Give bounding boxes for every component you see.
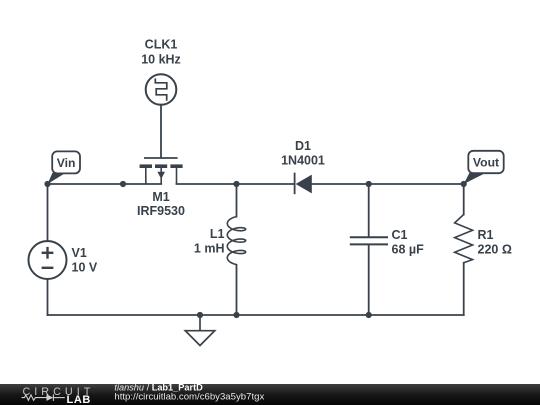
voltage source V1 <box>29 241 67 279</box>
svg-text:1 mH: 1 mH <box>194 242 225 256</box>
svg-text:IRF9530: IRF9530 <box>137 204 185 218</box>
node L1 bottom junction dot <box>233 312 239 318</box>
drain lead <box>176 168 178 185</box>
node flag Vout <box>464 151 504 184</box>
svg-text:http://circuitlab.com/c6by3a5y: http://circuitlab.com/c6by3a5yb7tgx <box>114 392 264 403</box>
channel bar source <box>140 164 152 168</box>
node M1 source junction dot <box>120 181 126 187</box>
footer bar <box>0 384 540 405</box>
svg-text:LAB: LAB <box>67 394 91 405</box>
source lead <box>145 168 147 185</box>
wire Vin node to M1 source <box>48 183 162 185</box>
svg-text:1N4001: 1N4001 <box>281 154 325 168</box>
wire C1 bottom lead <box>368 245 370 315</box>
node ground junction dot <box>197 312 203 318</box>
node Vout junction dot <box>461 181 467 187</box>
wire bottom rail <box>48 314 464 316</box>
channel bar body <box>155 164 167 168</box>
inductor L1 <box>227 217 245 265</box>
node C1 bottom junction dot <box>366 312 372 318</box>
logo wire glyph <box>22 394 65 401</box>
gate plate <box>144 157 178 159</box>
capacitor C1 <box>350 237 388 244</box>
node L1 top junction dot <box>233 181 239 187</box>
svg-text:L1: L1 <box>210 227 225 241</box>
node C1 top junction dot <box>366 181 372 187</box>
body lead with arrow <box>160 168 162 185</box>
wire C1 top lead <box>368 184 370 237</box>
wire L1 top lead <box>236 184 238 217</box>
svg-text:68 µF: 68 µF <box>392 243 425 257</box>
svg-text:V1: V1 <box>72 246 87 260</box>
svg-text:M1: M1 <box>152 190 169 204</box>
wire R1 bottom lead <box>463 263 465 315</box>
node flag Vin <box>48 151 81 184</box>
wire R1 top lead <box>463 184 465 215</box>
svg-text:D1: D1 <box>295 139 311 153</box>
svg-text:220 Ω: 220 Ω <box>478 243 512 257</box>
wire D1 anode to Vout node <box>312 183 464 185</box>
svg-text:10 V: 10 V <box>72 261 98 275</box>
svg-text:C1: C1 <box>392 228 408 242</box>
clock source CLK1 <box>146 74 177 105</box>
ground symbol <box>185 315 214 346</box>
transistor M1 (PMOS) <box>140 158 183 184</box>
node Vin junction dot <box>44 181 50 187</box>
svg-text:Vin: Vin <box>57 156 76 170</box>
svg-text:CLK1: CLK1 <box>145 38 178 52</box>
diode D1 <box>295 173 312 195</box>
svg-text:R1: R1 <box>478 228 494 242</box>
wire M1 drain to D1 cathode <box>177 183 295 185</box>
resistor R1 <box>455 215 473 263</box>
svg-text:10 kHz: 10 kHz <box>141 53 181 67</box>
wire V1 top lead <box>47 184 49 241</box>
wire V1 bottom lead <box>47 279 49 315</box>
channel bar drain <box>170 164 182 168</box>
wire CLK1 to M1 gate <box>160 105 162 158</box>
svg-text:Vout: Vout <box>473 155 499 169</box>
wire L1 bottom lead <box>236 265 238 315</box>
